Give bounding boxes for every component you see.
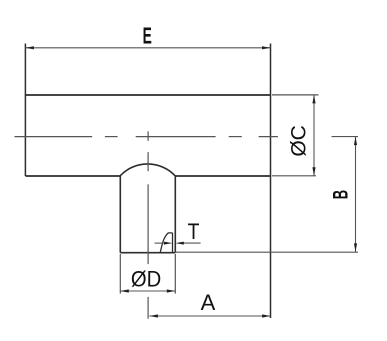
- arrowhead A left: [149, 314, 158, 317]
- run centerline dashes: [15, 136, 278, 138]
- branch bottom end face: [120, 252, 175, 254]
- extension line from run centerline for B: [332, 136, 359, 138]
- arrowhead A right: [262, 314, 271, 317]
- branch right wall: [174, 176, 176, 253]
- dimension line T right part: [182, 242, 201, 244]
- extension line from branch end for B: [175, 251, 358, 253]
- svg-text:ØC: ØC: [288, 125, 311, 157]
- arrowhead T pointing left: [175, 242, 183, 245]
- dimension line A: [149, 315, 270, 317]
- svg-text:A: A: [201, 290, 216, 315]
- dimension line T left part: [155, 242, 167, 244]
- extension line right for diameter D: [174, 254, 176, 294]
- run pipe left end face / E extension line: [24, 44, 26, 177]
- branch inner wall line (T detail): [172, 233, 174, 253]
- dimension line diameter D: [120, 290, 175, 292]
- run pipe right end face / E and A extension line: [270, 44, 272, 319]
- arrowhead B top: [354, 137, 357, 146]
- branch crotch dome curve: [120, 164, 175, 176]
- arrowhead D right: [167, 289, 176, 292]
- branch left wall: [119, 176, 121, 253]
- svg-text:ØD: ØD: [131, 268, 161, 292]
- arrowhead B bottom: [354, 243, 357, 252]
- arrowhead D left: [120, 289, 129, 292]
- dimension line E: [25, 47, 270, 49]
- run pipe bottom edge left of branch: [25, 175, 120, 177]
- svg-text:E: E: [143, 24, 152, 49]
- run pipe top edge: [25, 94, 270, 96]
- branch centerline dashes: [147, 131, 149, 318]
- arrowhead T pointing right: [164, 242, 172, 245]
- svg-text:T: T: [188, 220, 200, 244]
- svg-text:B: B: [328, 190, 352, 199]
- extension line left for diameter D: [119, 254, 121, 294]
- arrowhead C bottom: [312, 167, 315, 176]
- extension line bottom for diameter C: [272, 175, 316, 177]
- extension line top for diameter C: [272, 94, 319, 96]
- arrowhead E left: [25, 46, 34, 49]
- arrowhead C top: [312, 95, 315, 104]
- run pipe bottom edge right of branch: [175, 175, 270, 177]
- dimension line diameter C: [313, 95, 315, 176]
- arrowhead E right: [262, 46, 271, 49]
- break line of T detail: [160, 233, 172, 253]
- dimension line B: [355, 137, 357, 252]
